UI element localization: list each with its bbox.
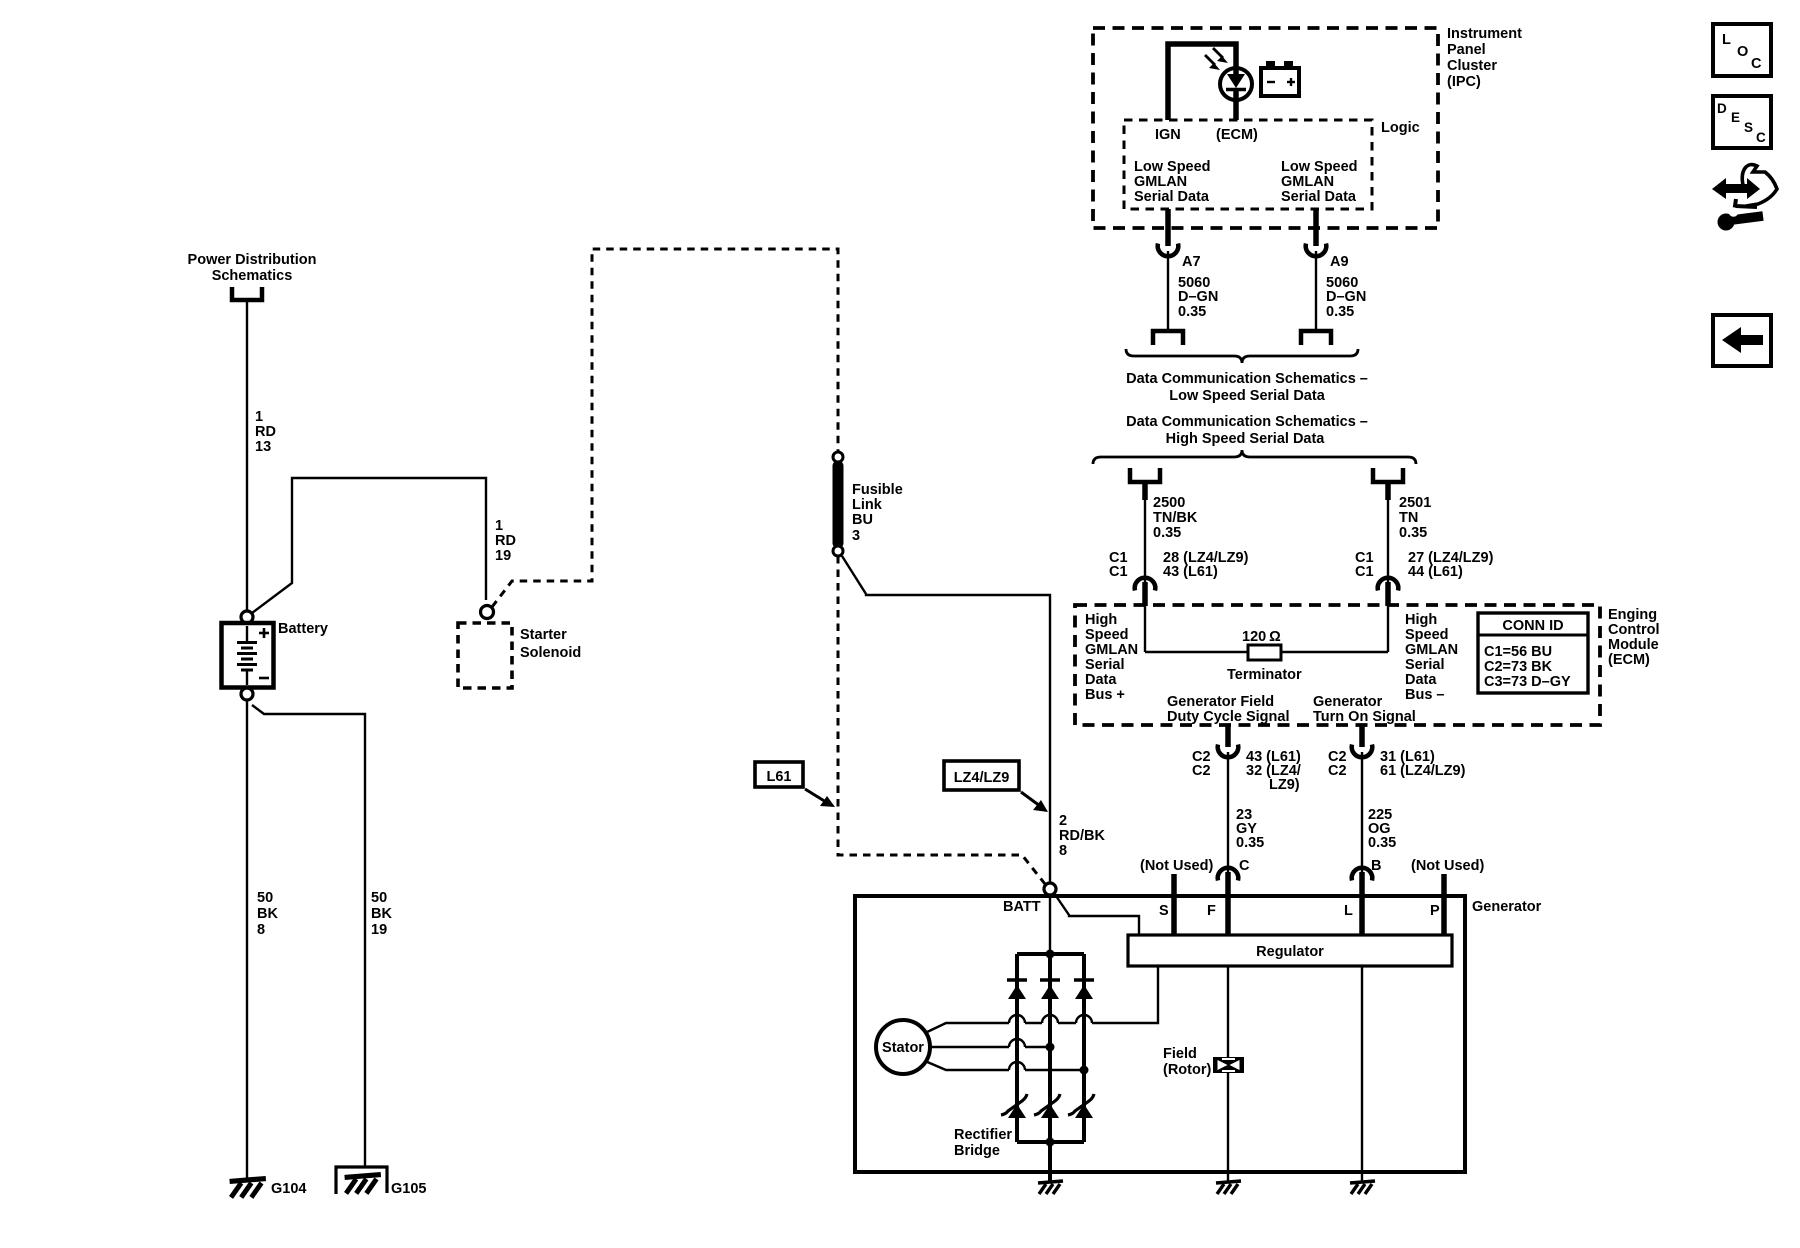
svg-text:LZ9): LZ9) — [1269, 777, 1300, 793]
wire bus + into terminator — [1144, 604, 1146, 652]
pin letter F — [1207, 903, 1216, 919]
wire 2501 TN 0.35 — [1385, 484, 1391, 583]
svg-text:S: S — [1744, 120, 1753, 135]
svg-text:Bus –: Bus – — [1405, 687, 1445, 703]
pin label 43/32 — [1246, 749, 1301, 793]
label Data Communication Schematics High Speed — [1126, 414, 1368, 447]
starter solenoid label — [520, 627, 581, 661]
ground (L) — [1350, 1181, 1375, 1194]
wire 23 GY 0.35 — [1227, 752, 1229, 873]
ground G105 — [336, 1167, 426, 1197]
node Power Distribution Schematics label — [188, 252, 317, 284]
svg-text:RD: RD — [495, 533, 516, 549]
svg-text:0.35: 0.35 — [1178, 304, 1206, 320]
BATT terminal ring — [1044, 883, 1056, 895]
IPC pin stub A9 — [1313, 209, 1319, 246]
wire 225 OG 0.35 — [1361, 752, 1363, 873]
svg-text:D–GN: D–GN — [1326, 289, 1366, 305]
wire battery positive to starter solenoid (1 RD 19) — [252, 478, 486, 613]
svg-text:E: E — [1731, 110, 1740, 125]
generator pin stub P (not used) — [1441, 874, 1447, 934]
svg-text:BK: BK — [257, 906, 278, 922]
wire battery negative to G104 (50 BK 8) — [246, 700, 248, 1180]
terminator label — [1227, 667, 1302, 683]
label (Not Used) S — [1140, 858, 1213, 874]
svg-text:C1: C1 — [1109, 564, 1128, 580]
svg-text:Generator: Generator — [1313, 694, 1383, 710]
wire label 2501 TN 0.35 — [1399, 495, 1431, 541]
battery positive terminal ring — [241, 611, 253, 623]
ECM pin stub (field duty cycle) — [1225, 725, 1231, 747]
svg-text:High: High — [1405, 612, 1437, 628]
svg-text:Field: Field — [1163, 1046, 1197, 1062]
pin letter P — [1430, 903, 1440, 919]
node Generator Turn On Signal — [1313, 694, 1416, 725]
pin letter L — [1344, 903, 1353, 919]
svg-text:2: 2 — [1059, 813, 1067, 829]
svg-text:CONN ID: CONN ID — [1502, 618, 1563, 634]
battery — [222, 623, 274, 688]
svg-text:C3=73 D–GY: C3=73 D–GY — [1484, 674, 1571, 690]
diode D2 (upper middle) — [1040, 980, 1060, 999]
IPC battery symbol — [1261, 61, 1299, 96]
svg-text:1: 1 — [255, 409, 263, 425]
icon back arrow — [1713, 315, 1771, 366]
svg-text:D–GN: D–GN — [1178, 289, 1218, 305]
battery label — [278, 621, 328, 637]
svg-text:Control: Control — [1608, 622, 1660, 638]
diode D3 (upper right) — [1074, 980, 1094, 999]
wire 1 RD 13 (battery feed) — [246, 300, 248, 611]
pin label C1 C1 (bus +) — [1109, 550, 1128, 580]
wire label 50 BK 8 — [257, 890, 278, 938]
svg-text:8: 8 — [257, 922, 265, 938]
svg-text:Enging: Enging — [1608, 607, 1657, 623]
CONN ID table — [1478, 613, 1588, 693]
pin label 31/61 — [1380, 749, 1466, 779]
svg-text:Cluster: Cluster — [1447, 58, 1497, 74]
svg-text:S: S — [1159, 903, 1169, 919]
generator pin stub F — [1225, 872, 1231, 934]
svg-text:G104: G104 — [271, 1181, 306, 1197]
wire BATT to regulator — [1054, 893, 1139, 935]
svg-text:Terminator: Terminator — [1227, 667, 1302, 683]
svg-text:Bus +: Bus + — [1085, 687, 1125, 703]
diode D1 (upper left) — [1007, 980, 1027, 999]
svg-text:Fusible: Fusible — [852, 482, 903, 498]
tag LZ4/LZ9 — [944, 761, 1048, 812]
connector C1 (bus -) — [1378, 578, 1399, 606]
svg-text:Module: Module — [1608, 637, 1659, 653]
svg-text:0.35: 0.35 — [1326, 304, 1354, 320]
svg-text:0.35: 0.35 — [1368, 835, 1396, 851]
label Data Communication Schematics Low Speed — [1126, 371, 1368, 404]
rectifier bridge left column — [1015, 954, 1019, 1142]
svg-text:TN/BK: TN/BK — [1153, 510, 1198, 526]
svg-text:C1: C1 — [1355, 564, 1374, 580]
node Low Speed GMLAN Serial Data (left) — [1134, 159, 1211, 205]
wire label 225 OG 0.35 — [1368, 807, 1396, 851]
svg-text:50: 50 — [371, 890, 387, 906]
svg-text:GMLAN: GMLAN — [1405, 642, 1458, 658]
svg-text:A7: A7 — [1182, 254, 1201, 270]
svg-text:2501: 2501 — [1399, 495, 1431, 511]
svg-text:120 Ω: 120 Ω — [1242, 629, 1281, 645]
svg-text:C2: C2 — [1328, 763, 1347, 779]
svg-text:2500: 2500 — [1153, 495, 1185, 511]
svg-text:Turn On Signal: Turn On Signal — [1313, 709, 1416, 725]
fusible link label — [852, 482, 903, 544]
svg-text:C2=73 BK: C2=73 BK — [1484, 659, 1553, 675]
pin label IGN — [1155, 127, 1181, 143]
svg-text:Bridge: Bridge — [954, 1143, 1000, 1159]
node Generator Field Duty Cycle Signal — [1167, 694, 1289, 725]
svg-text:L: L — [1722, 32, 1731, 48]
logic label — [1381, 120, 1420, 136]
svg-text:O: O — [1737, 44, 1748, 60]
connector C at generator — [1218, 868, 1239, 881]
field rotor coil — [1213, 1057, 1244, 1073]
wire field rotor — [1227, 966, 1229, 1172]
off-page bracket (A9 wire) — [1301, 331, 1331, 345]
svg-text:High: High — [1085, 612, 1117, 628]
svg-text:RD: RD — [255, 424, 276, 440]
svg-text:Serial: Serial — [1405, 657, 1445, 673]
pin label 28/43 (bus +) — [1163, 550, 1249, 580]
ground G104 — [230, 1179, 307, 1198]
wire label 2 RD/BK 8 — [1059, 813, 1105, 859]
svg-text:Battery: Battery — [278, 621, 328, 637]
svg-text:High Speed Serial Data: High Speed Serial Data — [1166, 431, 1326, 447]
svg-text:Solenoid: Solenoid — [520, 645, 581, 661]
battery negative terminal ring — [241, 688, 253, 700]
svg-text:Serial Data: Serial Data — [1134, 189, 1210, 205]
svg-text:Generator Field: Generator Field — [1167, 694, 1274, 710]
svg-text:Serial: Serial — [1085, 657, 1125, 673]
wire dashed fusible link to generator BATT — [838, 556, 1045, 884]
svg-text:Low Speed: Low Speed — [1281, 159, 1358, 175]
pin label C — [1239, 858, 1250, 874]
engine control module box (ECM) — [1075, 605, 1600, 725]
fusible link BU 3 — [833, 452, 843, 556]
wire label A9 5060 D-GN 0.35 — [1326, 254, 1366, 320]
svg-text:C: C — [1756, 130, 1766, 145]
svg-text:1: 1 — [495, 518, 503, 534]
off-page bracket (high speed bus +) — [1130, 468, 1160, 482]
brace high speed serial data — [1093, 450, 1416, 464]
icon LOC — [1713, 24, 1771, 76]
pin label C2 C2 (left) — [1192, 749, 1211, 779]
svg-text:0.35: 0.35 — [1153, 525, 1181, 541]
svg-text:D: D — [1717, 101, 1727, 116]
svg-text:A9: A9 — [1330, 254, 1349, 270]
wire IGN to charge indicator — [1168, 44, 1236, 120]
svg-text:Logic: Logic — [1381, 120, 1420, 136]
svg-text:G105: G105 — [391, 1181, 426, 1197]
svg-text:13: 13 — [255, 439, 271, 455]
wire L terminal to ground — [1361, 966, 1363, 1172]
svg-text:Link: Link — [852, 497, 883, 513]
svg-text:Power Distribution: Power Distribution — [188, 252, 317, 268]
stator phase wire 3 — [925, 1061, 1089, 1075]
BATT label — [1003, 899, 1041, 915]
svg-text:Speed: Speed — [1405, 627, 1449, 643]
connector C1 (bus +) — [1135, 578, 1156, 606]
svg-text:43 (L61): 43 (L61) — [1163, 564, 1218, 580]
node Low Speed GMLAN Serial Data (right) — [1281, 159, 1358, 205]
svg-text:50: 50 — [257, 890, 273, 906]
svg-text:RD/BK: RD/BK — [1059, 828, 1105, 844]
svg-text:61 (LZ4/LZ9): 61 (LZ4/LZ9) — [1380, 763, 1466, 779]
svg-text:C1=56 BU: C1=56 BU — [1484, 644, 1552, 660]
diode D4 (lower left, avalanche) — [1001, 1094, 1027, 1118]
wire label 2500 TN/BK 0.35 — [1153, 495, 1198, 541]
svg-text:GMLAN: GMLAN — [1134, 174, 1187, 190]
stator phase wire 1 — [925, 966, 1158, 1033]
svg-text:F: F — [1207, 903, 1216, 919]
svg-text:GMLAN: GMLAN — [1281, 174, 1334, 190]
pin label B — [1371, 858, 1381, 874]
rectifier bridge middle column — [1048, 952, 1052, 1142]
svg-text:(ECM): (ECM) — [1216, 127, 1258, 143]
svg-text:Data: Data — [1085, 672, 1117, 688]
label (Not Used) P — [1411, 858, 1484, 874]
connector C2 (field duty cycle) — [1218, 745, 1239, 758]
svg-text:Serial Data: Serial Data — [1281, 189, 1357, 205]
IPC label — [1447, 26, 1522, 90]
svg-text:Low Speed: Low Speed — [1134, 159, 1211, 175]
svg-text:BATT: BATT — [1003, 899, 1041, 915]
svg-text:C: C — [1239, 858, 1250, 874]
stator — [876, 1020, 930, 1074]
pin label (ECM) — [1216, 127, 1258, 143]
diode D6 (lower right, avalanche) — [1068, 1094, 1094, 1118]
wire 5060 D-GN 0.35 (A7) — [1167, 251, 1169, 329]
wire battery negative branch to G105 (50 BK 19) — [252, 705, 365, 1167]
svg-text:P: P — [1430, 903, 1440, 919]
wire label 50 BK 19 — [371, 890, 392, 938]
svg-text:8: 8 — [1059, 843, 1067, 859]
svg-text:Instrument: Instrument — [1447, 26, 1522, 42]
wire 2500 TN/BK 0.35 — [1142, 484, 1148, 583]
svg-text:(Rotor): (Rotor) — [1163, 1062, 1211, 1078]
ECM pin stub (turn on) — [1359, 725, 1365, 747]
svg-text:LZ4/LZ9: LZ4/LZ9 — [954, 770, 1010, 786]
svg-text:(Not Used): (Not Used) — [1140, 858, 1213, 874]
svg-text:44 (L61): 44 (L61) — [1408, 564, 1463, 580]
generator pin stub L — [1359, 872, 1365, 934]
svg-text:Schematics: Schematics — [212, 268, 293, 284]
svg-text:19: 19 — [371, 922, 387, 938]
node High Speed GMLAN Serial Data Bus - — [1405, 612, 1458, 703]
pin label 27/44 (bus -) — [1408, 550, 1494, 580]
ECM label — [1608, 607, 1660, 668]
svg-text:3: 3 — [852, 528, 860, 544]
svg-text:BU: BU — [852, 512, 873, 528]
svg-text:TN: TN — [1399, 510, 1418, 526]
svg-text:IGN: IGN — [1155, 127, 1181, 143]
node High Speed GMLAN Serial Data Bus + — [1085, 612, 1138, 703]
ground (field) — [1216, 1181, 1241, 1194]
off-page bracket (A7 wire) — [1153, 331, 1183, 345]
wire label 1 RD 19 — [495, 518, 516, 564]
wire solid fusible link output to generator BATT (2 RD/BK 8) — [842, 556, 1050, 883]
regulator — [1128, 935, 1452, 966]
generator label — [1472, 899, 1542, 915]
wire bridge to ground — [1048, 1142, 1052, 1181]
off-page connector bracket (Power Distribution) — [232, 287, 262, 300]
pin letter S — [1159, 903, 1169, 919]
wire BATT down to rectifier bridge — [1049, 895, 1051, 952]
connector A9 — [1306, 244, 1327, 257]
icon system check (arrows and wrench) — [1712, 165, 1777, 231]
connector C2 (turn on) — [1352, 745, 1373, 758]
wire label 23 GY 0.35 — [1236, 807, 1264, 851]
svg-text:C: C — [1751, 56, 1762, 72]
rectifier bridge top rail — [1017, 950, 1084, 959]
svg-text:Low Speed Serial Data: Low Speed Serial Data — [1169, 388, 1325, 404]
svg-text:Rectifier: Rectifier — [954, 1127, 1012, 1143]
LED illumination arrows — [1205, 48, 1228, 70]
wire terminator bus — [1145, 651, 1388, 653]
resistor terminator 120 ohm — [1248, 645, 1281, 660]
svg-text:0.35: 0.35 — [1236, 835, 1264, 851]
generator box — [855, 896, 1465, 1172]
connector B at generator — [1352, 868, 1373, 881]
charge indicator LED lamp — [1220, 68, 1252, 120]
field rotor label — [1163, 1046, 1211, 1078]
svg-text:L: L — [1344, 903, 1353, 919]
svg-text:Data Communication Schematics: Data Communication Schematics – — [1126, 414, 1368, 430]
rectifier bridge right column — [1082, 954, 1086, 1142]
svg-text:Panel: Panel — [1447, 42, 1486, 58]
starter solenoid terminal ring — [481, 606, 494, 619]
svg-text:Duty Cycle Signal: Duty Cycle Signal — [1167, 709, 1289, 725]
brace low speed serial data — [1126, 349, 1358, 363]
svg-text:BK: BK — [371, 906, 392, 922]
wire bus - into terminator — [1387, 604, 1389, 652]
svg-text:Stator: Stator — [882, 1040, 924, 1056]
resistor label 120 ohm — [1242, 629, 1281, 645]
connector A7 — [1158, 244, 1179, 257]
wire label 1 RD 13 — [255, 409, 276, 455]
icon DESC — [1713, 96, 1771, 148]
off-page bracket (high speed bus -) — [1373, 468, 1403, 482]
svg-text:Generator: Generator — [1472, 899, 1542, 915]
svg-text:Data Communication Schematics: Data Communication Schematics – — [1126, 371, 1368, 387]
svg-text:L61: L61 — [767, 769, 792, 785]
diode D5 (lower middle, avalanche) — [1034, 1094, 1060, 1118]
ground (bridge) — [1038, 1181, 1063, 1194]
rectifier bridge label — [954, 1127, 1012, 1159]
svg-text:(IPC): (IPC) — [1447, 74, 1481, 90]
rectifier bridge bottom rail — [1017, 1138, 1084, 1147]
instrument panel cluster box (IPC) — [1093, 28, 1438, 228]
logic box — [1124, 120, 1372, 209]
wire label A7 5060 D-GN 0.35 — [1178, 254, 1218, 320]
wire 5060 D-GN 0.35 (A9) — [1315, 251, 1317, 329]
svg-text:Regulator: Regulator — [1256, 944, 1324, 960]
tag L61 — [755, 762, 835, 807]
IPC pin stub A7 — [1165, 209, 1171, 246]
generator pin stub S (not used) — [1171, 874, 1177, 934]
svg-text:0.35: 0.35 — [1399, 525, 1427, 541]
pin label C2 C2 (right) — [1328, 749, 1347, 779]
svg-text:GMLAN: GMLAN — [1085, 642, 1138, 658]
svg-text:19: 19 — [495, 548, 511, 564]
wire L to ground — [1361, 1172, 1363, 1181]
stator phase wire 2 — [930, 1039, 1055, 1052]
svg-text:Starter: Starter — [520, 627, 567, 643]
svg-text:Data: Data — [1405, 672, 1437, 688]
svg-text:(ECM): (ECM) — [1608, 652, 1650, 668]
svg-text:Speed: Speed — [1085, 627, 1129, 643]
svg-text:C2: C2 — [1192, 763, 1211, 779]
wire field to ground — [1227, 1172, 1229, 1181]
pin label C1 C1 (bus -) — [1355, 550, 1374, 580]
svg-text:(Not Used): (Not Used) — [1411, 858, 1484, 874]
starter solenoid — [458, 623, 512, 688]
wire dashed starter solenoid to fusible link (L61 routing) — [492, 249, 838, 607]
